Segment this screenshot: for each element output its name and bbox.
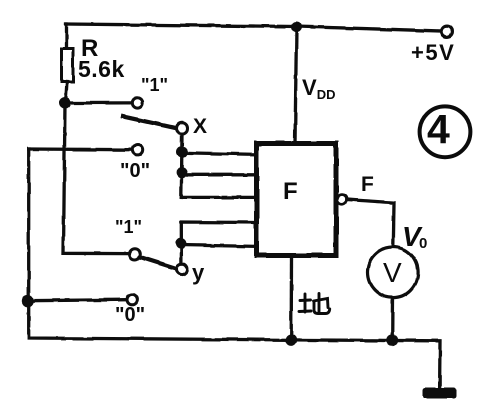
node resistor-bottom junction [59,97,71,109]
node VDD junction [291,22,302,33]
switch S1 arm X [123,117,177,129]
svg-text:F: F [283,178,298,205]
contact X "0" [132,145,142,155]
wire X to F input1 [182,153,256,155]
node X input1 [177,146,188,157]
wire X pole down [180,134,184,198]
wire left rail to X "0" [29,147,132,151]
voltmeter V [368,247,419,298]
svg-text:F: F [361,173,374,196]
wire resistor net down to Y "1" [64,103,130,254]
svg-text:V: V [383,257,402,288]
node ground junction F [285,334,297,346]
svg-text:"1": "1" [141,75,168,95]
wire to switch X position 1 [65,101,131,104]
svg-text:"0": "0" [120,160,150,182]
wire left rail vertical [29,149,291,340]
wire X to F input3 [181,196,256,199]
node ground junction V [386,334,398,346]
wire resistor bottom [66,82,68,103]
wire +5V top rail [66,24,442,31]
wire Y pole up [181,222,256,264]
svg-text:0: 0 [419,235,427,252]
node X input2 [176,167,187,178]
node Y input junction [175,238,186,249]
svg-text:y: y [192,260,205,285]
label 地 (ground) drawn strokes [299,294,330,314]
gate U1 box F [257,144,337,256]
wire voltmeter to ground rail [391,298,395,341]
terminal +5V [442,26,453,37]
wire F output [347,200,394,248]
inverter bubble output [337,195,346,204]
wire ground rail right [291,340,440,390]
svg-text:X: X [193,115,207,138]
svg-text:"0": "0" [115,304,145,326]
wire VDD vertical [295,27,297,143]
node left rail Y "0" junction [22,295,34,307]
svg-text:4: 4 [427,106,450,152]
ground symbol [423,388,457,399]
wire F bottom to ground rail [290,258,294,340]
contact Y "0" [127,294,137,304]
svg-text:+5V: +5V [411,40,455,65]
resistor R 5.6k [62,49,74,82]
contact Y "1" [130,249,141,260]
wire left rail to Y "0" [28,300,126,301]
circled 4 [420,106,471,157]
contact X pole [177,123,188,134]
wire resistor top [65,24,68,49]
contact X "1" [132,98,142,108]
svg-text:"1": "1" [115,217,142,237]
switch S2 arm Y [140,257,177,269]
wire X to F input2 [182,173,256,176]
svg-text:5.6k: 5.6k [78,56,125,82]
wire Y to F input5 [181,245,256,246]
contact Y pole [177,264,188,275]
